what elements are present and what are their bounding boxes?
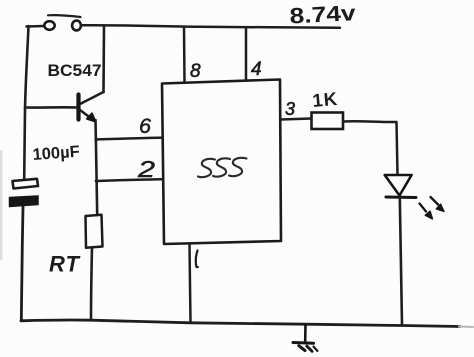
wire: 1K to right corner (343, 120, 396, 123)
LED light arrow 1 (431, 197, 439, 205)
switch S1 left terminal (44, 21, 54, 30)
svg-text:1K: 1K (312, 88, 339, 111)
transistor Q1 emitter with arrow (80, 110, 90, 118)
wire: pin 8 vertical (183, 28, 186, 82)
wire: bottom rail (21, 320, 460, 327)
wire: emitter vertical down to RT (96, 120, 98, 215)
ground hatch 2 (307, 346, 312, 351)
svg-text:RT: RT (49, 252, 80, 277)
svg-text:8: 8 (190, 61, 201, 82)
paper smudge left edge (0, 150, 2, 260)
wire: pin 1 vertical (190, 244, 191, 322)
wire: faint rail tail right (459, 326, 473, 329)
wire: pin 6 horizontal (96, 138, 163, 140)
label: pin 1 (196, 251, 198, 268)
wire: left rail vertical (24, 26, 28, 179)
wire: below RT to bottom rail (91, 248, 92, 321)
wire: pin 4 vertical (245, 28, 248, 80)
wire: below capacitor to bottom rail (21, 207, 23, 321)
transistor Q1 collector diagonal (81, 92, 104, 104)
svg-text:8.74v: 8.74v (289, 0, 357, 28)
wire: collector vertical from top rail (102, 26, 105, 92)
svg-text:2: 2 (137, 156, 156, 182)
switch S1 actuator bar (48, 15, 81, 17)
svg-text:3: 3 (285, 99, 295, 119)
IC U1 555 body (162, 80, 281, 245)
wire: pin 3 horizontal (281, 119, 311, 120)
wire: pin 2 horizontal (96, 179, 162, 181)
LED D1 triangle (385, 175, 412, 196)
ground hatch 3 (314, 347, 318, 351)
wire: top rail to 8.74v (81, 25, 340, 28)
ground hatch 1 (299, 346, 305, 351)
resistor R1 1K body (312, 113, 344, 130)
resistor RT body (86, 215, 103, 248)
switch S1 right terminal (72, 21, 81, 31)
svg-text:4: 4 (251, 59, 262, 80)
capacitor C1 bottom plate (10, 196, 39, 207)
label: 555 (198, 158, 247, 177)
wire: base from left rail (25, 106, 77, 109)
wire: LED cathode to bottom rail (400, 198, 402, 325)
capacitor C1 top plate (13, 179, 39, 189)
transistor Q1 base bar (76, 95, 80, 120)
ground stub (304, 325, 307, 342)
svg-text:6: 6 (139, 115, 151, 138)
wire: top rail left segment to switch (27, 25, 45, 28)
svg-text:BC547: BC547 (48, 61, 102, 80)
svg-text:100µF: 100µF (32, 143, 80, 164)
wire: right vertical to LED (397, 122, 398, 175)
LED D1 cathode bar (386, 196, 416, 200)
ground bar (293, 341, 314, 345)
LED light arrow 2 (420, 204, 427, 212)
